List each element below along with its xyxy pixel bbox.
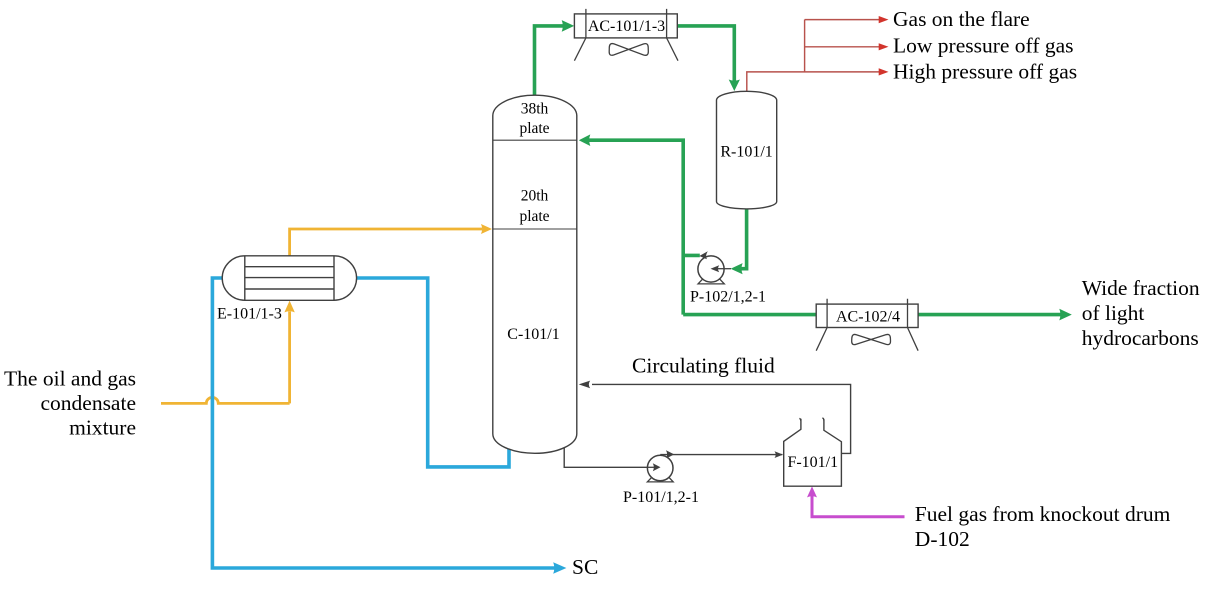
wire: green overhead vapour column top to AC-101 (535, 26, 566, 98)
svg-text:F-101/1: F-101/1 (787, 454, 838, 471)
svg-text:20th: 20th (521, 188, 549, 205)
wire: red tee vertical (804, 20, 806, 72)
20th plate line (493, 228, 577, 230)
wire: green AC-102 outlet to product (917, 313, 1062, 317)
arrow red high pressure off gas (879, 68, 889, 75)
arrow black circulating fluid into column (579, 381, 591, 389)
wire: yellow E-101 top to column 20th plate (290, 229, 482, 257)
wire: yellow feed line with hop over blue (161, 312, 290, 404)
svg-text:C-101/1: C-101/1 (507, 326, 559, 343)
svg-text:plate: plate (519, 208, 549, 225)
wire: green reflux header vertical and branch into column 38th plate (589, 140, 684, 314)
wire: black P-101 outlet to furnace F-101 (660, 454, 782, 456)
arrow blue SC (553, 562, 566, 574)
svg-text:Circulating fluid: Circulating fluid (632, 354, 775, 378)
pump P-101/1,2-1 (647, 455, 673, 482)
arrow green left into column 38th plate (579, 134, 591, 146)
svg-text:E-101/1-3: E-101/1-3 (217, 306, 282, 323)
38th plate line (493, 139, 577, 141)
pump P-102/1,2-1 (698, 251, 731, 284)
svg-text:Low pressure off gas: Low pressure off gas (893, 33, 1074, 57)
column C-101/1 (493, 95, 577, 453)
arrow yellow up into E-101 bottom (284, 301, 294, 313)
wire: black column bottoms to P-101 (564, 447, 652, 467)
fan AC-102 (852, 334, 891, 344)
svg-text:hydrocarbons: hydrocarbons (1082, 326, 1199, 350)
wire: green P-102 outlet stub (683, 254, 700, 258)
arrow red low pressure off gas (879, 43, 889, 50)
wire: blue E-101 right to column bottom (357, 278, 510, 467)
svg-text:P-102/1,2-1: P-102/1,2-1 (690, 289, 766, 306)
arrow yellow right into column 20th plate (481, 224, 492, 234)
air cooler AC-102/4 (816, 299, 918, 351)
wire: red R-101 top to high pressure off gas (747, 72, 879, 92)
wire: green AC-101 outlet to R-101 (677, 26, 734, 83)
air cooler AC-101/1-3 (574, 9, 678, 61)
svg-text:High pressure off gas: High pressure off gas (893, 59, 1077, 83)
fan AC-101 (609, 44, 648, 56)
wire: red branch low pressure off gas (805, 46, 879, 48)
svg-text:AC-101/1-3: AC-101/1-3 (588, 18, 665, 35)
reflux drum R-101/1 (717, 91, 777, 209)
arrow green wide fraction product (1059, 309, 1072, 321)
wire: magenta fuel gas to furnace (812, 494, 905, 517)
arrow black into furnace (775, 451, 784, 458)
heat exchanger E-101/1-3 (222, 256, 356, 300)
svg-text:D-102: D-102 (915, 527, 970, 551)
svg-text:SC: SC (572, 555, 598, 579)
arrow green down into R-101 (729, 80, 740, 92)
arrow black at P-101 outlet (666, 450, 674, 458)
wire: green header to AC-102 (683, 313, 816, 317)
arrow green left into P-102 (731, 263, 743, 274)
svg-text:condensate: condensate (40, 391, 136, 415)
furnace F-101/1 (784, 418, 842, 486)
arrow red gas on the flare (879, 16, 889, 23)
svg-text:Fuel gas from knockout drum: Fuel gas from knockout drum (915, 502, 1171, 526)
arrow green into AC-101 (562, 20, 575, 32)
wire: green R-101 bottom to pump P-102 (741, 205, 747, 269)
svg-text:mixture: mixture (69, 415, 136, 439)
wire: blue E-101 left to SC (212, 278, 555, 568)
svg-text:The oil and gas: The oil and gas (4, 367, 136, 391)
arrow magenta up into furnace (807, 486, 817, 497)
svg-text:R-101/1: R-101/1 (720, 144, 772, 161)
svg-text:of light: of light (1082, 301, 1145, 325)
wire: black circulating fluid furnace to column (592, 384, 851, 453)
wire: red branch gas on the flare (805, 19, 879, 21)
svg-text:Wide fraction: Wide fraction (1082, 276, 1200, 300)
svg-text:Gas on the flare: Gas on the flare (893, 7, 1030, 31)
svg-text:plate: plate (519, 120, 549, 137)
svg-text:AC-102/4: AC-102/4 (836, 308, 900, 325)
svg-text:P-101/1,2-1: P-101/1,2-1 (623, 489, 699, 506)
svg-text:38th: 38th (521, 101, 549, 118)
